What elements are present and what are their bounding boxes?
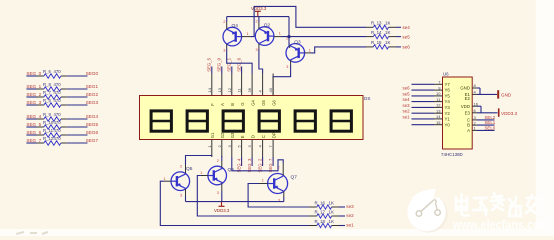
wire Q2 base straight to se5 row — [281, 36, 366, 38]
resistor R_15 1K — [366, 40, 401, 49]
resistor R_13 1K — [366, 21, 401, 30]
svg-text:1: 1 — [309, 49, 311, 53]
svg-text:Q6: Q6 — [228, 167, 235, 173]
svg-text:R_14: R_14 — [371, 30, 382, 35]
svg-text:1K: 1K — [329, 219, 334, 224]
wire net SEG_4 to display bottom pin 4 — [236, 157, 241, 173]
svg-text:12: 12 — [436, 103, 441, 108]
Q3 collector pin — [290, 60, 292, 65]
svg-text:SEG_4: SEG_4 — [26, 114, 41, 119]
svg-text:1K: 1K — [329, 209, 334, 214]
IC U6 left pin 10 (Y5) — [412, 91, 451, 98]
Q2 pin numbers — [256, 20, 281, 52]
svg-text:se5: se5 — [402, 34, 410, 39]
svg-text:1: 1 — [200, 171, 202, 175]
svg-text:se5: se5 — [403, 91, 411, 96]
wire Q4 base up and over to se4 row — [251, 6, 367, 36]
IC U6 left pin 7 (Y7) — [412, 80, 451, 87]
svg-text:SEG1: SEG1 — [86, 84, 99, 89]
svg-text:se6: se6 — [402, 45, 410, 50]
svg-text:se4: se4 — [402, 25, 410, 30]
display digit 6 — [331, 111, 351, 131]
svg-text:G4: G4 — [251, 100, 256, 106]
resistor R_14 1K — [366, 30, 401, 39]
Q3 pin numbers — [286, 37, 311, 69]
wire U6 select SEL1 — [477, 124, 495, 126]
svg-text:R_8: R_8 — [43, 82, 51, 87]
Q3 emitter pin — [289, 46, 291, 49]
svg-text:Y0: Y0 — [445, 122, 451, 127]
Q6 pin numbers — [200, 159, 219, 195]
display bottom pin 5 (E) — [237, 135, 245, 157]
display bottom pin 1 (G1) — [207, 132, 215, 157]
wire display pin 1 to Q5 collector — [186, 155, 212, 165]
svg-text:SEG_7: SEG_7 — [26, 138, 41, 143]
svg-text:1K: 1K — [385, 21, 390, 26]
svg-text:SEG3: SEG3 — [86, 100, 99, 105]
svg-text:2: 2 — [256, 20, 258, 24]
svg-text:C: C — [261, 135, 266, 138]
IC U6 left pin 14 (Y1) — [412, 114, 451, 121]
wire net SEG_3 to display bottom pin 5 — [247, 157, 252, 173]
resistor R_5 470 row net SEG_3 — [26, 98, 98, 107]
svg-text:12: 12 — [227, 87, 232, 92]
Q6 base pin — [201, 175, 208, 177]
svg-text:470: 470 — [54, 120, 62, 125]
svg-text:B: B — [467, 123, 470, 128]
svg-text:se1: se1 — [403, 114, 411, 119]
svg-text:E2: E2 — [465, 96, 471, 101]
wire Q4 emitter to VDD rail — [226, 17, 228, 22]
resistor R_12 470 row net SEG_7 — [26, 136, 98, 145]
svg-text:SEG4: SEG4 — [86, 114, 99, 119]
Q5 base pin — [164, 180, 171, 182]
wire net SEG_1 to display top pin 3 — [227, 57, 232, 73]
svg-text:G: G — [240, 103, 245, 106]
Q5 emitter pin — [185, 189, 187, 196]
wire Q5 emitter to bottom rail — [185, 196, 187, 202]
svg-text:se1: se1 — [346, 222, 354, 227]
svg-text:R_10: R_10 — [43, 120, 54, 125]
svg-text:G5: G5 — [261, 100, 266, 106]
svg-text:VDD3.3: VDD3.3 — [214, 208, 230, 213]
display digit 4 — [259, 111, 279, 131]
wire net SEG_2 to display bottom pin 6 — [257, 157, 262, 173]
power port VDD3.3 bottom — [214, 202, 230, 213]
svg-text:Q5: Q5 — [186, 166, 193, 172]
IC U6 left pin 9 (Y6) — [412, 85, 451, 92]
page white band right — [536, 0, 554, 236]
svg-text:Q7: Q7 — [291, 175, 298, 181]
Q3 base pin — [305, 52, 311, 54]
IC U6 right pin 8 (GND) — [460, 83, 477, 90]
svg-text:SEG2: SEG2 — [86, 92, 99, 97]
svg-text:R_7: R_7 — [43, 90, 51, 95]
svg-text:SEG_1: SEG_1 — [227, 57, 232, 71]
IC U6 right pin 2 (B) — [467, 120, 477, 127]
bottom-left cut-off watermark marks — [16, 232, 48, 234]
svg-text:36: 36 — [247, 87, 252, 92]
display top pin 14 (F) — [207, 74, 215, 106]
power port VDD3.3 top — [251, 6, 267, 16]
svg-text:Y4: Y4 — [445, 99, 451, 104]
svg-text:470: 470 — [54, 82, 62, 87]
svg-text:E3: E3 — [465, 110, 471, 115]
resistor R_17 1K — [309, 209, 345, 218]
svg-text:R_16: R_16 — [315, 200, 326, 205]
resistor R_16 1K — [309, 200, 345, 209]
wire Q2 emitter to VDD rail — [258, 17, 260, 22]
svg-text:SEG_6: SEG_6 — [236, 57, 241, 71]
wire Q6 base to se2 row — [197, 176, 309, 217]
display top pin 11 (G) — [237, 74, 245, 106]
transistor Q7 — [268, 174, 298, 194]
wire U6 select SEL0 — [477, 129, 495, 131]
svg-text:R_11: R_11 — [43, 128, 54, 133]
svg-text:A: A — [467, 128, 470, 133]
transistor Q2 — [255, 23, 274, 46]
svg-text:se3: se3 — [346, 204, 354, 209]
Q2 base pin — [274, 36, 281, 38]
svg-text:Q3: Q3 — [294, 39, 301, 45]
svg-text:1: 1 — [247, 32, 249, 36]
svg-text:SEG_2: SEG_2 — [26, 92, 41, 97]
svg-text:40: 40 — [268, 87, 273, 92]
svg-text:SEG0: SEG0 — [86, 71, 99, 76]
svg-text:SEG_0: SEG_0 — [26, 71, 41, 76]
svg-text:R_15: R_15 — [371, 40, 382, 45]
IC U6 right pin 3 (C) — [467, 115, 477, 122]
display bottom pin 3 (G3) — [227, 132, 235, 157]
svg-text:2: 2 — [223, 20, 225, 24]
svg-text:SEG7: SEG7 — [86, 138, 99, 143]
Q5 pin numbers — [164, 165, 183, 198]
svg-text:1: 1 — [164, 177, 166, 181]
svg-text:G6: G6 — [272, 100, 277, 106]
svg-text:10: 10 — [436, 91, 441, 96]
resistor R_6 470 row net SEG_0 — [26, 69, 98, 78]
wire net SEG_7 to display bottom pin 7 — [268, 157, 273, 173]
Q6 emitter pin — [221, 183, 223, 191]
resistor R_10 470 row net SEG_5 — [26, 120, 98, 129]
Q5 collector pin — [185, 165, 187, 173]
svg-text:470: 470 — [54, 136, 62, 141]
svg-text:se4: se4 — [403, 97, 411, 102]
resistor R_8 470 row net SEG_1 — [26, 82, 98, 91]
Q2 collector pin — [258, 44, 260, 50]
svg-text:3: 3 — [286, 65, 288, 69]
svg-text:13: 13 — [217, 87, 222, 92]
transistor Q6 — [208, 166, 234, 185]
wire net SEG_6 to display top pin 4 — [236, 57, 241, 73]
page white band bottom — [0, 229, 554, 236]
IC U6 left pin 15 (Y0) — [412, 120, 451, 127]
Q2 emitter pin — [258, 22, 260, 29]
svg-text:SEG_6: SEG_6 — [26, 130, 41, 135]
wire VDD3.3 rail bottom — [186, 201, 284, 203]
ground symbol GND — [498, 90, 512, 98]
svg-text:470: 470 — [54, 90, 62, 95]
wire VDD3.3 rail top — [227, 16, 289, 18]
display digit 1 — [151, 111, 171, 131]
op IC U1: 74HC138D U6 body — [441, 72, 472, 158]
svg-text:R_5: R_5 — [43, 98, 51, 103]
display DS 6-digit 7-segment module body — [140, 96, 371, 140]
svg-text:Y1: Y1 — [445, 117, 451, 122]
svg-text:Y6: Y6 — [445, 88, 451, 93]
IC U6 left pin 11 (Y4) — [412, 97, 451, 104]
wire Q6 emitter to bottom rail — [221, 191, 223, 202]
wire Q5 base to se1 row — [160, 181, 309, 225]
svg-text:U6: U6 — [443, 72, 449, 77]
svg-text:R_9: R_9 — [43, 112, 51, 117]
svg-text:se6: se6 — [403, 86, 411, 91]
wire Q3 collector to display pin 7 — [273, 65, 291, 77]
display digit 3 — [223, 111, 243, 131]
svg-text:G3: G3 — [230, 132, 235, 138]
display digit 5 — [295, 111, 315, 131]
svg-text:14: 14 — [436, 114, 441, 119]
svg-text:F: F — [210, 103, 215, 106]
display digit 2 — [187, 111, 207, 131]
wire Q7 base to se3 row — [248, 184, 309, 208]
IC U6 left pin 12 (Y3) — [412, 103, 451, 110]
svg-text:SEG_1: SEG_1 — [26, 84, 41, 89]
IC U6 left pin 13 (Y2) — [412, 108, 451, 115]
svg-text:1K: 1K — [385, 30, 390, 35]
svg-text:2: 2 — [217, 159, 219, 163]
IC U6 right pin 16 (VDD) — [461, 101, 479, 108]
svg-text:SEG_5: SEG_5 — [207, 57, 212, 71]
svg-text:SEG5: SEG5 — [86, 122, 99, 127]
IC U6 right pin 1 (A) — [467, 126, 477, 133]
svg-text:470: 470 — [54, 69, 62, 74]
svg-text:G1: G1 — [210, 132, 215, 138]
svg-text:R_6: R_6 — [43, 69, 51, 74]
svg-text:Y7: Y7 — [445, 82, 451, 87]
svg-text:1: 1 — [279, 32, 281, 36]
power port VDD3.3 at U6 — [499, 108, 518, 116]
wire U6 select SEL2 — [477, 119, 495, 121]
watermark chinese text dian zi fa shao you (stylized) — [456, 193, 539, 216]
wire Q3 base step up to se6 row — [311, 47, 367, 53]
wire VDD rail drop to Q3 emitter (junction with se5 net) — [287, 17, 290, 46]
IC U6 right pin 6 (E3) — [465, 108, 477, 115]
display top pin 13 (A) — [217, 74, 225, 106]
svg-text:1K: 1K — [385, 40, 390, 45]
Q7 base pin — [259, 183, 268, 185]
svg-text:Y5: Y5 — [445, 94, 451, 99]
display bottom pin 2 (G2) — [217, 132, 225, 157]
svg-text:1K: 1K — [329, 200, 334, 205]
Q4 base pin — [242, 36, 251, 38]
svg-text:se2: se2 — [403, 109, 411, 114]
display top pin 4 (G5) — [258, 74, 266, 106]
svg-text:G2: G2 — [220, 132, 225, 138]
svg-text:se3: se3 — [403, 103, 411, 108]
display top pin 40 (G6) — [268, 74, 276, 106]
watermark logo circle — [407, 189, 447, 233]
IC U6 right pin 4 (E1) — [465, 90, 477, 97]
svg-text:SEG_5: SEG_5 — [26, 122, 41, 127]
Q4 collector pin — [226, 44, 228, 49]
display bottom pin 4 (C) — [258, 135, 266, 157]
wire display pin 2 to Q6 collector — [221, 156, 223, 161]
svg-text:SEL1: SEL1 — [485, 120, 496, 125]
wire U6 GND group — [477, 88, 497, 94]
svg-text:Q2: Q2 — [264, 23, 271, 29]
display bottom pin 7 (DP) — [268, 132, 276, 157]
svg-text:3: 3 — [217, 191, 219, 195]
svg-text:74HC138D: 74HC138D — [441, 152, 463, 157]
Q6 collector pin — [221, 161, 223, 168]
svg-text:1: 1 — [262, 179, 264, 183]
resistor R_7 470 row net SEG_2 — [26, 90, 98, 99]
svg-text:R_17: R_17 — [315, 209, 326, 214]
display top pin 36 (G4) — [247, 74, 255, 106]
resistor R_18 1K — [309, 219, 345, 228]
wire Q4 collector to display pin 5 — [227, 49, 252, 74]
transistor Q3 — [286, 39, 305, 62]
svg-text:D: D — [251, 135, 256, 138]
Q7 pin numbers — [262, 166, 280, 203]
wire Q7 emitter to bottom rail — [283, 197, 285, 202]
svg-text:B: B — [230, 103, 235, 106]
wire net SEG_5 to display top pin 1 — [207, 57, 212, 73]
svg-text:R_12: R_12 — [43, 136, 54, 141]
svg-text:E: E — [240, 135, 245, 138]
svg-text:470: 470 — [54, 112, 62, 117]
svg-text:VDD3.3: VDD3.3 — [501, 111, 518, 116]
svg-text:2: 2 — [180, 165, 182, 169]
wire Q2 collector to display pin 6 — [259, 49, 263, 74]
Q4 pin numbers — [223, 20, 248, 52]
svg-text:13: 13 — [436, 108, 441, 113]
Q7 collector pin — [282, 163, 284, 176]
svg-text:GND: GND — [501, 92, 512, 97]
wire net SEG_0 to display top pin 2 — [217, 57, 222, 73]
svg-text:Q4: Q4 — [232, 23, 239, 29]
wire display pin 3 to Q7 collector — [232, 157, 283, 171]
svg-text:15: 15 — [436, 120, 441, 125]
svg-text:SEG6: SEG6 — [86, 130, 99, 135]
svg-text:3: 3 — [223, 49, 225, 53]
wire U6 VDD group — [477, 106, 498, 113]
svg-text:DP: DP — [272, 132, 277, 138]
svg-text:www.elecfans.com: www.elecfans.com — [452, 217, 550, 232]
svg-text:SEG_0: SEG_0 — [217, 57, 222, 71]
svg-text:GND: GND — [460, 86, 470, 91]
transistor Q4 — [223, 23, 242, 46]
Q4 emitter pin — [226, 22, 228, 29]
svg-text:470: 470 — [54, 98, 62, 103]
svg-text:SEG_3: SEG_3 — [26, 100, 41, 105]
svg-text:DS: DS — [364, 96, 370, 101]
svg-text:SEL0: SEL0 — [485, 125, 496, 130]
svg-text:Y3: Y3 — [445, 105, 451, 110]
svg-text:Y2: Y2 — [445, 111, 451, 116]
svg-text:VDD: VDD — [461, 104, 470, 109]
svg-text:A: A — [220, 103, 225, 106]
svg-text:R_13: R_13 — [371, 21, 382, 26]
svg-text:se2: se2 — [346, 213, 354, 218]
resistor R_9 470 row net SEG_4 — [26, 112, 98, 121]
svg-text:3: 3 — [256, 48, 258, 52]
display bottom pin 3 (D) — [247, 135, 255, 157]
resistor R_11 470 row net SEG_6 — [26, 128, 98, 137]
display top pin 12 (B) — [227, 74, 235, 106]
Q7 emitter pin — [283, 191, 285, 197]
svg-text:470: 470 — [54, 128, 62, 133]
transistor Q5 — [171, 166, 193, 191]
svg-text:3: 3 — [180, 194, 182, 198]
svg-text:14: 14 — [207, 87, 212, 92]
svg-text:R_18: R_18 — [315, 219, 326, 224]
